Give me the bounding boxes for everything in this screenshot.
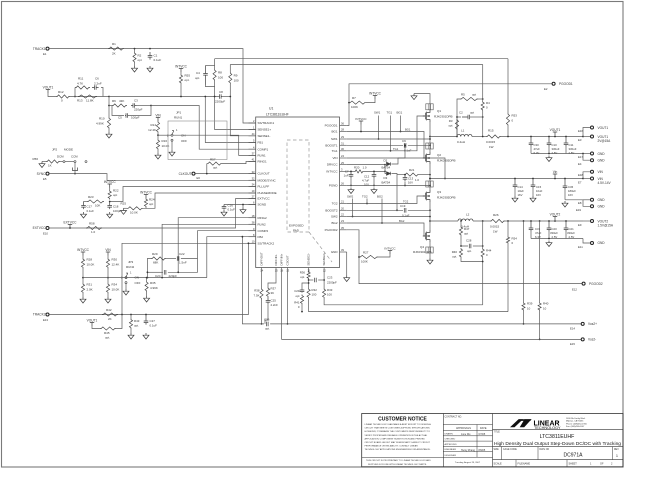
ground below C16 (221, 210, 227, 216)
svg-text:RUN1: RUN1 (174, 116, 182, 120)
svg-text:R34: R34 (112, 283, 118, 287)
svg-text:opt: opt (149, 202, 153, 206)
svg-text:PGOOD2: PGOOD2 (589, 282, 603, 286)
wire COMP1 route (151, 106, 256, 150)
svg-text:HOWEVER, IT REMAINS THE CUSTOM: HOWEVER, IT REMAINS THE CUSTOMER'S RESPO… (365, 430, 431, 433)
resistor R29 68K compensation (147, 277, 149, 279)
resistor R34 10.0K (107, 269, 109, 284)
svg-text:DESIGNER: DESIGNER (445, 455, 457, 457)
transistor Q4 RJK0301DPB (423, 230, 430, 242)
svg-text:GND: GND (598, 205, 606, 209)
svg-text:PGND: PGND (329, 184, 339, 188)
transistor Q3 RJK0305DPB (423, 190, 430, 202)
svg-text:opt.: opt. (300, 275, 305, 279)
svg-text:opt.: opt. (105, 336, 110, 340)
terminal E4 GND (583, 154, 591, 161)
svg-text:E11: E11 (578, 245, 583, 249)
resistor R28 10.0K (82, 256, 84, 259)
U1 left pin 32 MODE/SYNC (249, 179, 256, 181)
wire VIN input rail (430, 178, 583, 180)
svg-text:2.5V: 2.5V (569, 151, 575, 155)
terminal E12 PGOOD2 (582, 282, 585, 285)
wire CLKOUT to pin 33 (195, 173, 256, 175)
svg-text:JP2: JP2 (52, 148, 58, 152)
svg-text:opt: opt (470, 111, 474, 115)
capacitor C14 10uF 16V (514, 178, 516, 180)
U1 right pin 29 SW1 (340, 138, 347, 140)
svg-text:RJK0305DPB: RJK0305DPB (437, 159, 456, 163)
svg-text:10: 10 (527, 307, 531, 311)
size cage dwg rev row (493, 459, 624, 461)
svg-text:opt: opt (472, 93, 476, 97)
resistor R27 100K PGOOD2 pullup (358, 256, 360, 258)
svg-text:TECHNOLOGY: TECHNOLOGY (534, 426, 561, 430)
svg-text:100: 100 (234, 79, 239, 83)
svg-text:R16: R16 (162, 139, 168, 143)
svg-text:DWG NO: DWG NO (540, 449, 550, 451)
svg-text:1uF: 1uF (344, 174, 349, 178)
svg-text:1.5V@15A: 1.5V@15A (598, 224, 614, 228)
svg-text:R46: R46 (452, 250, 458, 254)
U1 right pin 36 PGOOD1 (340, 125, 347, 127)
svg-text:APPROVALS: APPROVALS (456, 427, 471, 430)
terminal E16 VOUT1 kelvin (583, 128, 591, 137)
svg-text:DRAWN: DRAWN (445, 432, 454, 435)
svg-text:BG2: BG2 (399, 219, 405, 223)
svg-text:16V: 16V (518, 193, 523, 197)
resistor R16 10.0K (157, 135, 159, 139)
svg-text:C5: C5 (118, 116, 122, 120)
node R30/R34 (107, 277, 109, 279)
ground at SGND pin (242, 205, 244, 208)
svg-text:OF: OF (600, 463, 604, 466)
svg-text:LTC3811EUHF: LTC3811EUHF (266, 113, 289, 117)
svg-text:C27: C27 (150, 319, 156, 323)
svg-text:R54: R54 (512, 237, 518, 241)
svg-text:C24: C24 (155, 274, 161, 278)
svg-text:TG2: TG2 (332, 202, 338, 206)
svg-text:0.1uF: 0.1uF (228, 208, 236, 212)
svg-text:R3: R3 (449, 119, 453, 123)
svg-text:R53: R53 (512, 114, 518, 118)
wire TRACK2 to SS/TRACK2 (49, 243, 256, 314)
svg-text:SW1: SW1 (374, 111, 381, 115)
svg-text:opt: opt (448, 124, 452, 128)
svg-text:OFF: OFF (135, 281, 141, 285)
svg-text:E16: E16 (578, 129, 583, 133)
ground below R34 (107, 294, 109, 298)
U1 right pin 26 PGND (340, 185, 347, 187)
svg-text:R6: R6 (112, 99, 116, 103)
svg-text:R40: R40 (543, 302, 549, 306)
power tap INTVCC for R7 (366, 99, 375, 103)
svg-text:C4: C4 (196, 71, 200, 75)
svg-text:1.0: 1.0 (363, 165, 367, 169)
title block outline (362, 414, 623, 467)
capacitor C6 2.2nF (92, 85, 99, 90)
svg-text:100K: 100K (361, 260, 368, 264)
svg-text:R29: R29 (152, 252, 158, 256)
svg-text:RUN1: RUN1 (258, 154, 266, 158)
capacitor C26 opt series (267, 322, 269, 327)
U1 right pin 30 TG1 (340, 150, 347, 152)
capacitor C10 330uF 2.5V (548, 136, 550, 138)
svg-text:R37: R37 (271, 287, 277, 291)
terminal E17 GND (583, 153, 591, 155)
svg-text:0.1uF: 0.1uF (150, 324, 158, 328)
wire Q1 source to SW1 node (429, 122, 431, 152)
svg-text:opt: opt (213, 166, 217, 170)
ground below C12 on PGND rail (371, 188, 377, 194)
svg-text:BOOST2: BOOST2 (325, 208, 338, 212)
node RUN1 divider (157, 133, 159, 135)
svg-text:E13: E13 (43, 318, 48, 322)
wire VOUT1 remote sense - to R4 (230, 64, 482, 66)
resistor R22 opt (109, 188, 111, 191)
wire RUN2/FB2 node line (83, 277, 207, 279)
terminal E19 GND (583, 200, 591, 207)
U1 right pin 31 BOOST1 (340, 144, 347, 146)
svg-text:MODE/SYNC: MODE/SYNC (258, 178, 277, 182)
U1 left pin 1 SENSE1+ (249, 129, 256, 131)
svg-text:E3: E3 (578, 138, 582, 142)
capacitor C23 2200pF bridging sense columns (309, 279, 314, 281)
jumper JP1 RUN1 outline (168, 121, 227, 160)
svg-text:C25: C25 (271, 299, 277, 303)
ground below JP3 (125, 284, 127, 290)
svg-text:12.4K: 12.4K (112, 263, 120, 267)
ground at ch2 caps (548, 238, 550, 240)
svg-text:PHASEMODE: PHASEMODE (258, 191, 277, 195)
svg-text:INTVCC: INTVCC (140, 190, 153, 194)
transistor Q1 RJK0301DPB (423, 110, 430, 122)
svg-text:220pF: 220pF (134, 108, 143, 112)
jumper JP2 pins (63, 161, 65, 163)
ground below R2 (134, 63, 136, 66)
node R12/R13 (74, 96, 76, 98)
svg-text:1: 1 (616, 454, 618, 458)
svg-text:SHEET: SHEET (569, 463, 578, 466)
svg-text:0.0015: 0.0015 (490, 225, 500, 229)
wire SENSE2+ column (323, 273, 325, 289)
svg-text:E18: E18 (578, 173, 583, 177)
svg-text:R44: R44 (486, 249, 492, 253)
svg-text:VIN: VIN (105, 248, 111, 252)
svg-text:10.0K: 10.0K (87, 263, 95, 267)
svg-text:VOUT1: VOUT1 (598, 135, 609, 139)
resistor R45 opt (92, 326, 100, 329)
U1 left pin 44 SENSE1- (249, 135, 256, 137)
svg-text:opt.: opt. (467, 249, 472, 253)
svg-text:4.5V-14V: 4.5V-14V (598, 181, 612, 185)
IC U1 LTC3811EUHF body (256, 117, 340, 268)
capacitor C1 0.1uF (148, 52, 153, 60)
svg-text:Milpitas, CA 95035: Milpitas, CA 95035 (566, 420, 584, 423)
svg-text:1W: 1W (489, 145, 494, 149)
svg-text:CIRCUIT BOARD LAYOUT MAY SIGNI: CIRCUIT BOARD LAYOUT MAY SIGNIFICANTLY A… (365, 441, 431, 444)
wire TG2 to Q3 gate (347, 196, 426, 204)
svg-text:R42: R42 (106, 308, 112, 312)
wire L1 to R15 (472, 136, 486, 138)
wire VOUT2 rail (505, 220, 583, 222)
svg-text:R35: R35 (150, 281, 156, 285)
wire SW1 rail to L1 (430, 136, 457, 138)
svg-text:2200pF: 2200pF (215, 100, 225, 104)
svg-text:VIN: VIN (332, 156, 337, 160)
svg-text:VOUT1: VOUT1 (87, 318, 98, 322)
svg-text:opt: opt (464, 232, 468, 236)
svg-text:1.5nF: 1.5nF (179, 261, 187, 265)
terminal E9 VOUT2 (583, 220, 591, 222)
svg-text:RING1: RING1 (258, 160, 268, 164)
resistor R31 2.0K (82, 269, 84, 284)
terminal E6 CLKOUT (192, 172, 195, 175)
svg-text:opt: opt (138, 58, 142, 62)
svg-text:BAT54: BAT54 (382, 181, 391, 185)
svg-text:Phone: (408)432-1900: Phone: (408)432-1900 (566, 423, 588, 425)
svg-text:opt: opt (113, 193, 117, 197)
svg-text:INTVCC: INTVCC (175, 64, 188, 68)
wire SYNC to MODE/SYNC pin (49, 174, 256, 181)
svg-text:VOUT1: VOUT1 (43, 85, 54, 89)
U1 bottom pin 11 SENSE2- (308, 268, 310, 273)
node R22/R23/C18 (109, 201, 111, 203)
svg-text:SENSE1-: SENSE1- (258, 134, 271, 138)
svg-text:R4: R4 (486, 101, 490, 105)
svg-text:1K: 1K (48, 164, 52, 168)
wire COMP2 route (198, 231, 256, 259)
svg-text:2K: 2K (112, 52, 116, 56)
ground below JP1 (171, 141, 173, 150)
svg-text:SW1: SW1 (331, 137, 338, 141)
svg-text:SCALE: SCALE (494, 463, 503, 466)
wire RUN2 route (162, 224, 256, 277)
ground left of R25 (124, 207, 128, 209)
svg-text:10: 10 (543, 307, 547, 311)
svg-text:2.0K: 2.0K (87, 288, 93, 292)
svg-text:E15: E15 (570, 342, 575, 346)
resistor R44 0 sense feed (482, 220, 484, 222)
wire SENSE2- remote line to R54 (309, 299, 508, 312)
svg-text:opt.: opt. (134, 324, 139, 328)
svg-text:R27: R27 (363, 251, 369, 255)
svg-text:6.3V: 6.3V (534, 151, 540, 155)
wire BG1 to Q2 gate (347, 132, 426, 159)
svg-text:GND: GND (331, 250, 339, 254)
capacitor C18 100pF (107, 202, 112, 210)
svg-text:RING2: RING2 (258, 216, 268, 220)
svg-text:C19: C19 (400, 204, 406, 208)
svg-text:R28: R28 (87, 258, 93, 262)
U1 left pin 9 COMP2 (249, 230, 256, 232)
svg-text:SENSE1+: SENSE1+ (258, 128, 272, 132)
capacitor C22 1.5nF (166, 258, 176, 260)
wire PLL/LPF route (110, 187, 256, 202)
svg-text:E9: E9 (578, 223, 582, 227)
terminal E18 VIN (583, 172, 591, 179)
capacitor C8 2200pF (219, 94, 222, 99)
svg-text:16V: 16V (568, 193, 573, 197)
svg-text:PGOOD1: PGOOD1 (559, 82, 573, 86)
svg-text:SS/TRACK1: SS/TRACK1 (258, 121, 275, 125)
capacitor C27 0.1uF (145, 314, 147, 316)
wire PGND (347, 185, 430, 187)
terminal E1 TRACK1 (46, 47, 49, 50)
svg-text:VIN: VIN (598, 170, 604, 174)
svg-text:GND: GND (598, 158, 606, 162)
capacitor C15 10uF 16V (532, 178, 534, 180)
resistor R39 10 (523, 220, 525, 222)
resistor R57 opt to RING1 (206, 164, 208, 174)
svg-text:VOUT2: VOUT2 (598, 219, 609, 223)
svg-text:APPLICATION. COMPONENT SUBSTIT: APPLICATION. COMPONENT SUBSTITUTION AND … (365, 437, 426, 440)
resistor R10 4.99K (108, 97, 110, 118)
capacitor C20 330uF 2.5V (548, 220, 550, 222)
svg-text:C9: C9 (402, 139, 406, 143)
svg-text:11.8K: 11.8K (86, 99, 94, 103)
resistor R35 4.99K (146, 277, 148, 279)
capacitor C12 4.7uF 10V (373, 171, 375, 173)
svg-text:CSOUT: CSOUT (286, 255, 290, 265)
svg-text:L1: L1 (461, 129, 465, 133)
svg-text:INTVCC: INTVCC (326, 170, 338, 174)
capacitor C21 330uF 2.5V (565, 220, 567, 222)
svg-text:8/9/05: 8/9/05 (479, 449, 486, 452)
svg-text:2.2nF: 2.2nF (271, 303, 279, 307)
wire SS/TRACK2 branch to R42 node (122, 243, 248, 314)
svg-text:CUSTOMER NOTICE: CUSTOMER NOTICE (378, 417, 427, 423)
svg-text:R13: R13 (77, 99, 83, 103)
resistor R58 1.0 (86, 226, 102, 229)
svg-text:BG1: BG1 (405, 128, 411, 132)
terminal E14 Vos2+ (581, 322, 584, 325)
resistor R30 12.4K (107, 256, 109, 259)
wire VOS2+ line with C26 (242, 237, 264, 324)
resistor R42 2K (102, 313, 118, 316)
svg-text:opt.: opt. (195, 76, 200, 80)
svg-text:INTVCC: INTVCC (77, 248, 90, 252)
svg-text:DIFF/OUT: DIFF/OUT (260, 252, 264, 266)
resistor R32 100 (307, 288, 310, 298)
svg-text:E6: E6 (197, 176, 201, 180)
svg-text:SGND: SGND (258, 203, 268, 207)
svg-text:E4: E4 (578, 162, 582, 166)
ground below R31 (82, 294, 84, 298)
svg-text:DC971A: DC971A (564, 452, 584, 458)
svg-text:BG1: BG1 (397, 111, 403, 115)
svg-text:PLL/LPF: PLL/LPF (258, 185, 270, 189)
svg-text:EXTVCC: EXTVCC (258, 197, 271, 201)
resistor R43 opt (130, 314, 132, 316)
wire output gnd rail ch2 (531, 238, 583, 240)
transistor Q4 paired fet (426, 247, 433, 253)
svg-text:E5: E5 (43, 177, 47, 181)
svg-text:Tuesday, August 28, 2007: Tuesday, August 28, 2007 (455, 461, 481, 464)
U1 left pin 41 RING1 (249, 161, 256, 163)
transistor Q2 RJK0305DPB (423, 152, 430, 164)
svg-text:R56: R56 (32, 157, 38, 161)
resistor R53 0 sense feed (506, 113, 509, 126)
capacitor C24 220pF parallel (147, 271, 163, 273)
svg-text:OFF: OFF (181, 139, 187, 143)
wire PGOOD2 to terminal E12 (347, 230, 582, 284)
ground below C7 on PGND rail (348, 188, 354, 194)
svg-text:SIZE: SIZE (494, 449, 500, 451)
svg-text:opt: opt (295, 294, 299, 298)
node FB1 divider (108, 96, 110, 98)
svg-text:opt.: opt. (185, 78, 190, 82)
wire TG1 to Q1 gate (347, 116, 426, 151)
ground below C14 (512, 196, 518, 202)
svg-text:DRVCC: DRVCC (327, 163, 338, 167)
wire BG2 to Q4 gate (347, 223, 426, 236)
svg-text:CLKOUT: CLKOUT (179, 172, 192, 176)
capacitor C19 0.1uF boost (404, 208, 406, 213)
U1 left pin 18 RING2 (249, 217, 256, 219)
svg-text:C1: C1 (154, 54, 158, 58)
resistor R37 3K (266, 287, 269, 297)
svg-text:R25: R25 (120, 202, 126, 206)
capacitor C25 2.2nF (266, 298, 271, 305)
svg-text:TG1: TG1 (332, 149, 338, 153)
diode D2 BAT54 (384, 164, 386, 166)
svg-text:7.5K: 7.5K (254, 294, 260, 298)
U1 left pin 2 SS/TRACK1 (249, 122, 256, 124)
svg-text:BG2: BG2 (331, 221, 337, 225)
svg-text:opt.: opt. (265, 327, 270, 331)
svg-text:R45: R45 (104, 331, 110, 335)
svg-text:1.0: 1.0 (415, 178, 419, 182)
transistor Q1 paired fet (426, 104, 433, 110)
svg-text:TG2: TG2 (362, 195, 368, 199)
svg-text:4.99K: 4.99K (96, 122, 104, 126)
svg-text:TG2: TG2 (403, 200, 409, 204)
svg-text:Vos2+: Vos2+ (588, 322, 597, 326)
svg-text:R23: R23 (88, 195, 94, 199)
resistor R20 1.0 (354, 170, 364, 173)
svg-text:TRACK1: TRACK1 (33, 47, 46, 51)
svg-text:TRACK2: TRACK2 (33, 313, 46, 317)
svg-text:GND: GND (598, 152, 606, 156)
svg-text:TITLE: TITLE (494, 431, 501, 433)
svg-text:Henry Zhang: Henry Zhang (461, 449, 475, 452)
svg-text:CONTRACT NO.: CONTRACT NO. (445, 416, 463, 419)
resistor R3 opt (455, 119, 458, 130)
resistor R23 10K (87, 200, 104, 203)
svg-text:REV: REV (614, 449, 619, 451)
svg-text:opt.: opt. (452, 255, 457, 259)
diode D3 BAT54 (385, 171, 386, 173)
resistor R9 100 (229, 72, 232, 84)
U1 right pin 23 BG2 (340, 222, 347, 224)
svg-text:ENGINEER: ENGINEER (445, 449, 457, 451)
terminal E15 Vos2- (581, 338, 584, 341)
svg-text:TG1: TG1 (387, 111, 393, 115)
svg-text:4.99K: 4.99K (150, 286, 158, 290)
resistor R26 0.0015 1W sense (490, 219, 505, 222)
resistor R38 7.5K (260, 288, 263, 299)
svg-text:BG2: BG2 (377, 195, 383, 199)
wire DIFF/OUT to R38 (261, 273, 263, 289)
svg-text:Q3: Q3 (437, 190, 441, 194)
svg-text:RUN2: RUN2 (126, 265, 134, 269)
svg-text:0.1uF: 0.1uF (402, 214, 410, 218)
capacitor C7 1uF (350, 171, 352, 173)
wire SW1 to switch node (347, 138, 430, 140)
svg-text:R33: R33 (327, 288, 333, 292)
svg-text:BG1: BG1 (331, 130, 337, 134)
svg-text:SW2: SW2 (347, 195, 354, 199)
